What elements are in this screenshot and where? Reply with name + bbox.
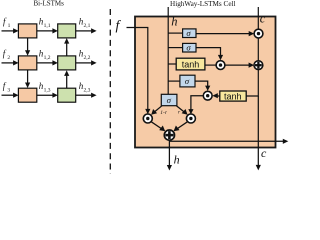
wire c line mul1 to add2	[257, 38, 259, 60]
wire h2,3 output arrow	[76, 93, 97, 98]
highway cell body	[135, 17, 276, 148]
svg-text:1-r: 1-r	[160, 110, 168, 116]
svg-text:1,3: 1,3	[44, 88, 51, 94]
svg-text:σ: σ	[167, 95, 172, 105]
wire mul6 out diag into add3	[151, 122, 165, 131]
wire h1,1 arrow	[37, 28, 58, 33]
sigma1 gate box	[183, 29, 196, 38]
wire h stub to sigma1	[168, 32, 182, 34]
lstm box backward 2 (green)	[58, 56, 76, 70]
wire mul3 output to add2	[225, 63, 254, 68]
svg-text:Bi-LSTMs: Bi-LSTMs	[34, 0, 65, 8]
wire sigma4 output elbow down into mul4	[195, 81, 211, 91]
wire h branch to right edge exit arrow	[169, 139, 288, 144]
wire mul4 output elbow down into mul5	[188, 96, 203, 115]
sigma2 gate box	[183, 43, 196, 52]
wire mul5 out diag into add3	[174, 122, 188, 131]
wire h stub to sigma4	[168, 80, 180, 82]
svg-text:f: f	[3, 17, 7, 27]
wire tanh1 output to mul3	[205, 64, 216, 66]
wire forward chain arrow box1->box2 (down)	[25, 38, 30, 56]
operator mul6 (1-r x f)	[143, 114, 152, 123]
wire h stub to tanh1	[168, 63, 176, 65]
wire sigma5 diag 1-r into mul6	[151, 106, 162, 115]
svg-text:h: h	[174, 153, 180, 167]
wire c line add2 down and branch into tanh2	[246, 70, 258, 96]
sigma4 gate box	[180, 75, 195, 87]
operator mul3 (input gate x g)	[216, 61, 225, 70]
wire backward chain arrow box3->box2 (up)	[64, 70, 69, 88]
svg-text:1: 1	[8, 23, 11, 29]
lstm box backward 1 (green)	[58, 24, 76, 38]
wire f2 input arrow	[2, 60, 19, 65]
wire c input line from top	[257, 7, 259, 34]
wire forward chain arrow box2->box3 (down)	[25, 70, 30, 88]
svg-text:h: h	[171, 15, 177, 29]
operator mul5 (r x h')	[186, 114, 195, 123]
operator mul4 (output gate x tanh c)	[203, 91, 212, 100]
lstm box forward 1 (orange)	[18, 24, 36, 38]
svg-text:tanh: tanh	[224, 91, 242, 101]
wire sigma2 output elbow down into mul3	[196, 48, 223, 61]
wire sigma1 output to mul1	[196, 31, 254, 36]
operator add3 (highway sum)	[164, 130, 174, 140]
wire h2,2 output arrow	[76, 60, 97, 65]
svg-text:tanh: tanh	[182, 60, 200, 70]
lstm box forward 2 (orange)	[18, 56, 36, 70]
svg-text:HighWay-LSTMs Cell: HighWay-LSTMs Cell	[170, 0, 236, 8]
wire sigma5 diag r into mul5	[176, 106, 187, 115]
tanh2 box	[220, 91, 246, 101]
wire f1 input arrow	[2, 28, 19, 33]
wire f input line into cell with corner down	[127, 28, 148, 110]
tanh1 box	[176, 58, 205, 70]
lstm box forward 3 (orange)	[18, 88, 36, 102]
wire h2,1 output arrow	[76, 28, 97, 33]
svg-text:f: f	[3, 49, 7, 59]
svg-text:1,1: 1,1	[44, 23, 51, 29]
svg-text:2: 2	[7, 55, 10, 61]
svg-text:f: f	[3, 81, 7, 91]
operator mul1 (on c line, forget)	[254, 29, 263, 38]
separator dashed line	[109, 9, 111, 174]
svg-text:σ: σ	[185, 76, 190, 86]
svg-text:2,1: 2,1	[84, 23, 91, 29]
wire h1,3 arrow	[37, 93, 58, 98]
operator add2 (on c line)	[254, 61, 263, 70]
svg-text:c: c	[261, 146, 267, 160]
wire h output from add3 down and right branch	[167, 140, 172, 170]
svg-text:f: f	[116, 19, 122, 34]
wire backward chain arrow box2->box1 (up)	[64, 38, 69, 56]
wire tanh2 output into mul4	[212, 93, 220, 98]
svg-text:1,2: 1,2	[44, 55, 51, 61]
wire h stub to sigma2	[168, 47, 182, 49]
svg-text:2,2: 2,2	[84, 55, 91, 61]
svg-text:3: 3	[7, 88, 10, 94]
svg-text:σ: σ	[186, 28, 191, 38]
wire f drop arrowhead into mul6	[145, 109, 150, 114]
svg-text:σ: σ	[186, 42, 191, 52]
wire h1,2 arrow	[37, 60, 58, 65]
svg-text:2,3: 2,3	[84, 88, 91, 94]
wire f3 input arrow	[2, 93, 19, 98]
lstm box backward 3 (green)	[58, 88, 76, 102]
sigma5 highway gate box	[161, 94, 177, 105]
wire h input line from top	[167, 7, 169, 94]
svg-text:c: c	[260, 11, 266, 25]
wire c output to bottom	[256, 96, 261, 170]
